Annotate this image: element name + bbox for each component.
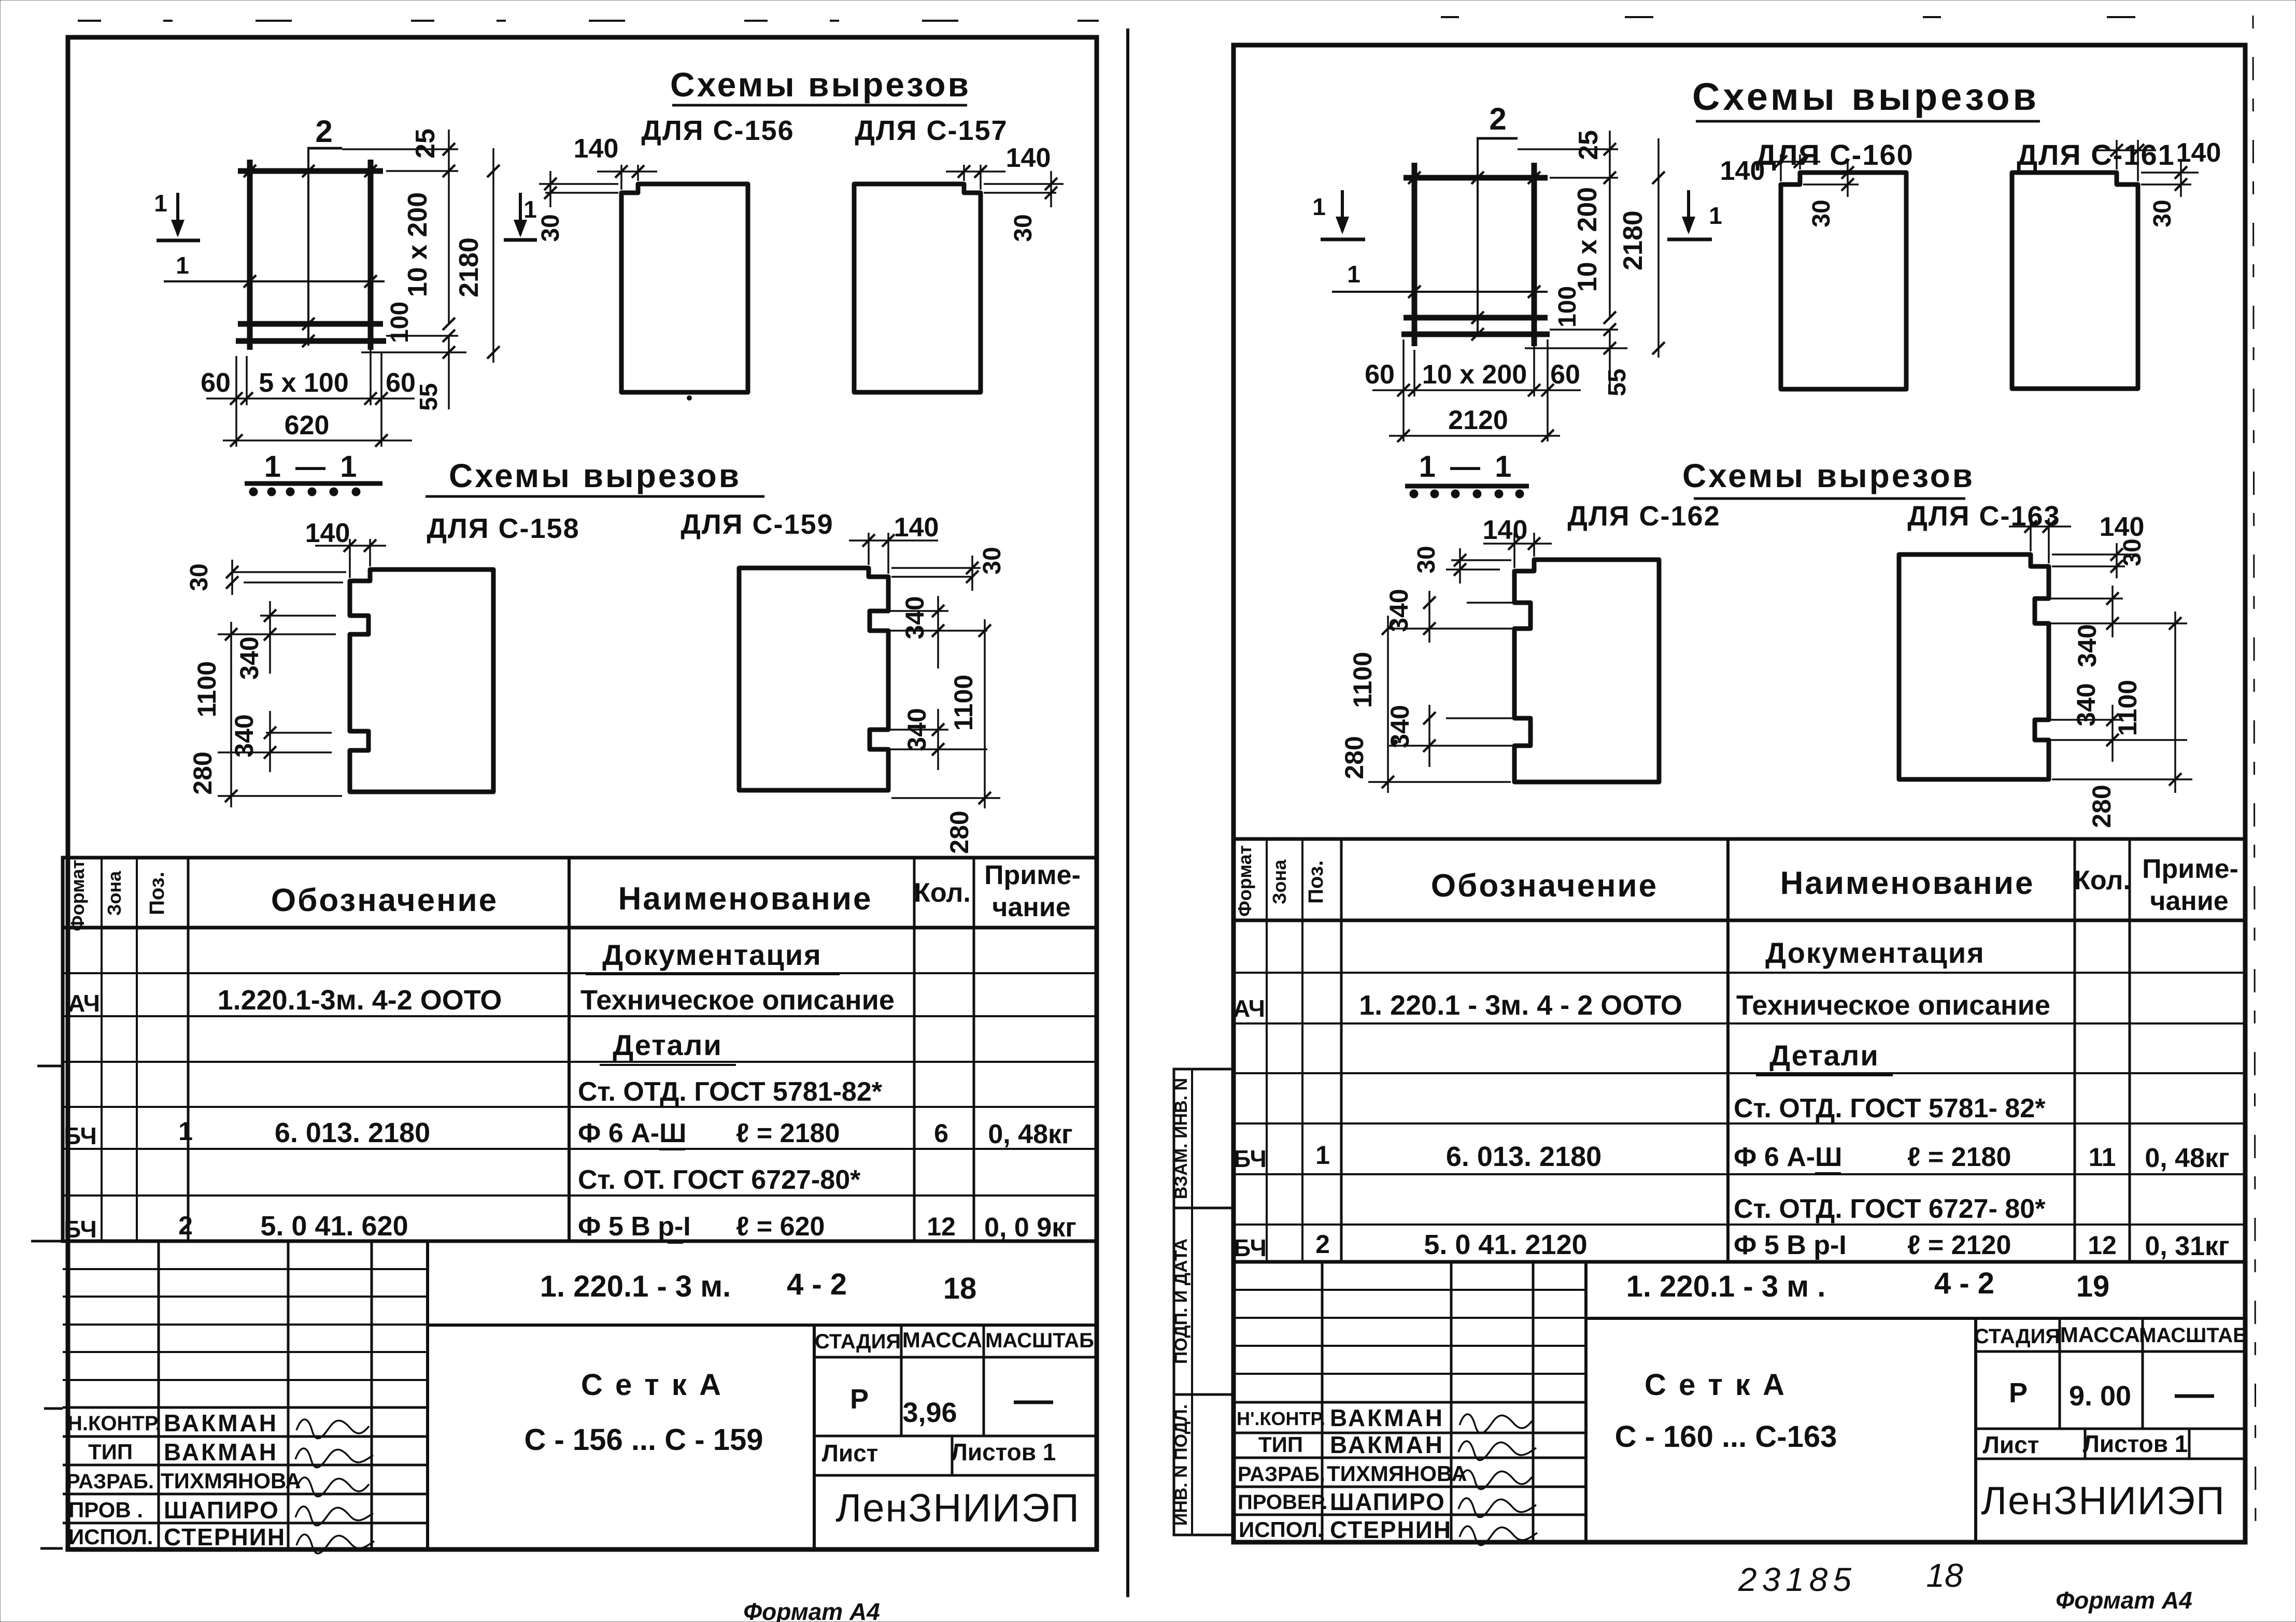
svg-text:ВАКМАН: ВАКМАН	[164, 1439, 278, 1466]
left title block thin row line	[63, 1379, 428, 1381]
left spec table header bottom line	[63, 926, 1097, 930]
C-159 dim 1100 line	[984, 619, 986, 808]
C-156 dim 30 tick line	[549, 171, 551, 207]
svg-text:ПРОВЕР.: ПРОВЕР.	[1238, 1491, 1327, 1514]
svg-text:340: 340	[235, 636, 264, 679]
mesh L bottom ext line c	[370, 350, 372, 405]
svg-text:ТИХМЯНОВА: ТИХМЯНОВА	[161, 1469, 301, 1493]
mesh R dim 2120 line	[1389, 435, 1560, 437]
svg-text:140: 140	[894, 513, 939, 543]
right title block signature 5	[1459, 1526, 1537, 1545]
mesh L tick top-mid	[302, 165, 315, 177]
mesh R section arrow right base	[1667, 238, 1712, 241]
svg-text:280: 280	[945, 810, 974, 853]
mesh R ticks top	[1408, 172, 1421, 184]
svg-text:ДЛЯ С-160: ДЛЯ С-160	[1755, 138, 1914, 171]
svg-text:2: 2	[315, 114, 332, 149]
svg-text:Техническое описание: Техническое описание	[1736, 990, 2050, 1021]
mesh R bottom ext lines	[1402, 339, 1405, 442]
C-159 dim 30 tick line	[971, 556, 973, 591]
C-158 dim 140 ext lines	[349, 539, 351, 578]
svg-text:0, 31кг: 0, 31кг	[2145, 1231, 2229, 1261]
left margin tick 3	[44, 1407, 63, 1410]
C-163 dim 140 ext lines	[2030, 518, 2032, 551]
right title block signature row line	[1234, 1486, 1586, 1488]
C-159 dim 140 ext lines	[868, 533, 870, 565]
mesh R dim ticks row1	[1397, 384, 1410, 396]
svg-text:ШАПИРО: ШАПИРО	[164, 1497, 279, 1524]
svg-text:БЧ: БЧ	[64, 1216, 97, 1243]
C-157 dim 140 line	[946, 170, 1005, 173]
svg-text:ДЛЯ С-157: ДЛЯ С-157	[855, 115, 1008, 146]
svg-text:С - 156 ... С - 159: С - 156 ... С - 159	[525, 1423, 763, 1457]
C-156 dim 140 ticks	[615, 165, 628, 178]
mesh L tick cut-left	[244, 275, 256, 288]
mesh L dim 100 ext	[386, 335, 458, 337]
C-159 dim 340 lower line	[937, 709, 939, 770]
right title block list divider	[2084, 1429, 2087, 1459]
C-157 dim 30 ext b	[984, 192, 1056, 194]
C-159 dim 340 lower ticks	[932, 723, 944, 736]
svg-text:55: 55	[1604, 368, 1631, 396]
C-158 cutout2 ext lines	[266, 732, 332, 734]
svg-text:30: 30	[1010, 214, 1037, 241]
mesh L middle wire 2	[307, 148, 309, 346]
svg-text:340: 340	[1385, 705, 1414, 748]
right title block title box right line	[1974, 1318, 1977, 1542]
svg-text:1. 220.1 - 3 м .: 1. 220.1 - 3 м .	[1626, 1270, 1826, 1303]
mesh R dim 10x200 tick	[1604, 311, 1616, 324]
svg-text:Ф 6 А-Ш: Ф 6 А-Ш	[1734, 1142, 1842, 1172]
left title block scale dash	[1014, 1401, 1053, 1404]
svg-text:БЧ: БЧ	[64, 1122, 97, 1149]
mesh R section arrow left	[1341, 190, 1344, 231]
svg-text:Зона: Зона	[1269, 859, 1290, 904]
cutout scheme C-158 outline	[350, 570, 493, 792]
left title block thin row line	[63, 1324, 428, 1326]
svg-text:БЧ: БЧ	[1234, 1145, 1267, 1172]
C-159 dim 340 upper ticks	[932, 605, 944, 617]
svg-text:60: 60	[386, 368, 416, 398]
C-158 dim 30 ticks	[226, 566, 238, 578]
C-159 bottom ext line	[891, 797, 1000, 799]
C-156 dim 30 ext b	[545, 192, 618, 194]
svg-text:МАСШТАБ: МАСШТАБ	[985, 1329, 1094, 1352]
mesh L tick bot1-mid	[302, 318, 315, 330]
C-162 dim 140 ticks	[1508, 537, 1521, 550]
scan artifact top edge dashes right	[1441, 16, 2234, 18]
C-162 dim 30 ext lines	[1451, 559, 1511, 561]
svg-text:140: 140	[574, 134, 619, 164]
C-158 dim 30 tick line	[231, 560, 233, 595]
C-162 dim 340 upper line	[1428, 591, 1430, 643]
mesh L dim 55 ext	[361, 351, 466, 353]
mesh L section arrow left base	[157, 239, 200, 243]
left spec table row line	[63, 1106, 1097, 1108]
svg-text:12: 12	[927, 1212, 956, 1241]
svg-text:340: 340	[900, 596, 929, 639]
left spec table column line	[187, 858, 190, 1241]
C-156 dim 140 ext b	[637, 165, 639, 181]
C-156 dim 30 ext a	[539, 183, 618, 185]
mesh R dim 25 ext lines	[1518, 148, 1618, 150]
mesh L dim 25 tick a	[443, 143, 455, 155]
mesh R transverse bar top	[1404, 175, 1548, 181]
svg-text:340: 340	[230, 714, 259, 757]
svg-text:ℓ = 2120: ℓ = 2120	[1907, 1230, 2011, 1260]
svg-text:Схемы вырезов: Схемы вырезов	[1682, 457, 1975, 494]
svg-text:1 — 1: 1 — 1	[1419, 450, 1515, 483]
svg-text:Ф 5 В р-I: Ф 5 В р-I	[1734, 1230, 1847, 1260]
left margin tick 2	[31, 1240, 63, 1243]
right title block massa col line	[2142, 1318, 2144, 1429]
C-158 dim 340 upper line	[269, 601, 271, 674]
svg-text:5 x 100: 5 x 100	[259, 368, 349, 398]
right title block signature 3	[1459, 1470, 1532, 1489]
svg-text:280: 280	[188, 751, 217, 794]
C-156 dim 140 ext a	[620, 165, 622, 190]
left title block signature 3	[296, 1477, 369, 1497]
right spec table row line	[1234, 1122, 2245, 1125]
svg-text:12: 12	[2088, 1231, 2117, 1260]
C-163 dim 340 upper ticks	[2106, 592, 2119, 605]
stamp box PODP I DATA	[1174, 1208, 1234, 1395]
C-159 dim 1100 ticks	[979, 624, 991, 637]
left spec table column line	[136, 858, 138, 1241]
svg-text:60: 60	[1365, 360, 1395, 390]
left title block signature row line	[63, 1406, 428, 1409]
svg-text:0, 48кг: 0, 48кг	[988, 1119, 1072, 1149]
left spec row pos2 name underline	[668, 1242, 683, 1244]
svg-text:Детали: Детали	[613, 1029, 722, 1061]
mesh L dim 2180 tick top	[487, 165, 500, 177]
svg-text:чание: чание	[2150, 886, 2228, 916]
svg-text:Схемы вырезов: Схемы вырезов	[670, 65, 971, 104]
svg-text:Обозначение: Обозначение	[1431, 868, 1658, 904]
left spec row documentation underline	[586, 973, 840, 975]
svg-text:РАЗРАБ.: РАЗРАБ.	[66, 1470, 154, 1493]
mesh R ticks cut	[1408, 286, 1421, 298]
stamp box VZAM divider	[1191, 1069, 1193, 1208]
svg-text:ℓ = 620: ℓ = 620	[736, 1212, 825, 1242]
svg-text:2: 2	[1315, 1230, 1330, 1259]
mesh L dim 10x200 tick	[443, 318, 455, 330]
svg-text:Наименование: Наименование	[618, 881, 873, 917]
svg-text:1100: 1100	[1348, 652, 1377, 708]
left spec table column line	[913, 858, 916, 1241]
svg-text:1: 1	[1347, 261, 1360, 288]
left spec table row line	[63, 1194, 1097, 1197]
right spec row pos1 name underline	[1815, 1172, 1841, 1174]
C-158 dim 1100 line	[230, 622, 232, 807]
cutout scheme C-157 outline	[854, 184, 981, 392]
C-158 dim 140 ticks	[344, 539, 356, 552]
svg-text:6. 013. 2180: 6. 013. 2180	[275, 1117, 430, 1148]
left title block thin row line	[63, 1268, 428, 1270]
mesh R dim 100 ext	[1550, 329, 1618, 331]
C-158 dim 30 ext lines	[233, 571, 346, 573]
svg-text:60: 60	[201, 368, 231, 398]
left title block values row line	[814, 1435, 1097, 1438]
mesh L dim 55 tick	[443, 346, 455, 359]
left title block signature 4	[295, 1506, 373, 1526]
svg-text:1100: 1100	[949, 675, 978, 731]
C-160 dim 140 line	[1758, 161, 1820, 163]
C-158 cutout1 ext lines	[260, 615, 336, 617]
svg-text:Р: Р	[2009, 1377, 2028, 1408]
right title block signature row line	[1234, 1514, 1586, 1516]
C-163 cutout2 ext lines	[2038, 719, 2123, 721]
right title block signature 4	[1458, 1498, 1536, 1517]
svg-text:100: 100	[386, 302, 414, 343]
mesh R section arrow left base	[1321, 238, 1365, 241]
C-158 dim 340 lower line	[269, 711, 271, 772]
mesh R middle wire 2	[1477, 138, 1479, 336]
svg-text:30: 30	[537, 214, 564, 241]
right title block values row line	[1976, 1428, 2245, 1430]
C-163 dim 30 ext lines	[2052, 553, 2135, 556]
title underline top right page	[1696, 120, 2040, 123]
right spec table column line	[1301, 839, 1303, 1262]
C-156 dim 30 ticks	[544, 178, 557, 190]
svg-text:4 - 2: 4 - 2	[787, 1268, 847, 1301]
C-163 dim 340 upper line	[2111, 586, 2114, 637]
svg-text:Детали: Детали	[1769, 1039, 1879, 1072]
C-159 cutout1 ext lines	[873, 610, 948, 612]
right title block list row line	[1976, 1458, 2245, 1460]
svg-text:Приме-: Приме-	[984, 860, 1081, 890]
svg-text:Поз.: Поз.	[146, 872, 168, 915]
mesh R dim 10x200 line	[1609, 187, 1611, 318]
C-157 dim 140 ext a	[963, 165, 965, 181]
svg-text:23185: 23185	[1738, 1561, 1856, 1598]
svg-text:Схемы вырезов: Схемы вырезов	[449, 457, 741, 494]
left title block signature 5	[296, 1534, 374, 1554]
svg-text:2: 2	[178, 1211, 193, 1240]
C-163 dim 340 lower ticks	[2106, 714, 2119, 726]
svg-text:ИСПОЛ.: ИСПОЛ.	[68, 1525, 153, 1549]
svg-text:1: 1	[1315, 1141, 1330, 1170]
mesh L dim 620 line	[223, 439, 412, 442]
mesh R longitudinal bar left	[1412, 163, 1418, 346]
right title block signature 1	[1459, 1414, 1532, 1433]
mesh L section arrow left	[176, 193, 179, 234]
svg-text:10 x 200: 10 x 200	[403, 192, 433, 297]
cutout scheme C-156 outline	[621, 184, 748, 392]
svg-text:ДЛЯ С-162: ДЛЯ С-162	[1567, 501, 1720, 532]
C-163 dim 30 ticks	[2110, 548, 2123, 561]
svg-text:ДЛЯ С-161: ДЛЯ С-161	[2017, 138, 2175, 171]
svg-text:0, 48кг: 0, 48кг	[2145, 1143, 2229, 1173]
left title block list divider	[951, 1436, 954, 1475]
mesh L dim 100 ticks	[443, 330, 455, 342]
svg-text:ЛенЗНИИЭП: ЛенЗНИИЭП	[1981, 1479, 2225, 1523]
right title block signature grid verticals	[1321, 1262, 1324, 1542]
svg-text:280: 280	[1340, 736, 1369, 779]
svg-text:Документация: Документация	[602, 938, 822, 971]
right spec table column line	[1266, 839, 1268, 1262]
C-160 dim 140 ticks	[1775, 155, 1787, 168]
title underline middle right page	[1694, 497, 1965, 500]
svg-text:Ф 5 В р-I: Ф 5 В р-I	[578, 1212, 691, 1242]
svg-text:620: 620	[285, 410, 330, 440]
C-160 dim 30 ext lines	[1803, 172, 1866, 174]
right title block stadia header line	[1976, 1350, 2245, 1353]
mesh L bottom ext line d	[380, 352, 382, 447]
C-162 cutout1 ext lines	[1467, 602, 1528, 604]
mesh L wire-2 callout flag	[307, 147, 342, 150]
svg-text:ИСПОЛ.: ИСПОЛ.	[1239, 1517, 1323, 1542]
left title block signature row line	[63, 1493, 428, 1496]
svg-text:СТЕРНИН: СТЕРНИН	[1330, 1516, 1452, 1543]
svg-text:1. 220.1 - 3м. 4 - 2 ООТО: 1. 220.1 - 3м. 4 - 2 ООТО	[1359, 990, 1682, 1021]
left margin tick 4	[40, 1547, 63, 1550]
C-162 bottom ext line	[1368, 781, 1511, 783]
svg-text:ТИП: ТИП	[1258, 1432, 1303, 1457]
mesh L section arrow right base	[504, 238, 537, 242]
C-156 dim 140 line	[597, 170, 657, 173]
mesh L dim 2180 line	[492, 148, 494, 363]
cutout scheme C-159 outline	[739, 568, 888, 790]
left margin tick 1	[37, 1065, 63, 1068]
mesh L section arrow right	[519, 193, 522, 234]
right title block list divider 2	[2188, 1429, 2191, 1459]
svg-text:МАССА: МАССА	[2060, 1322, 2140, 1347]
C-162 dim 1100 line	[1387, 616, 1389, 793]
right spec row documentation underline	[1747, 972, 2004, 974]
title underline middle left page	[426, 495, 764, 498]
svg-text:140: 140	[2100, 512, 2145, 542]
svg-text:5. 0 41. 2120: 5. 0 41. 2120	[1424, 1229, 1587, 1260]
svg-text:Ст. ОТД. ГОСТ 6727- 80*: Ст. ОТД. ГОСТ 6727- 80*	[1734, 1194, 2046, 1224]
cutout scheme C-162 outline	[1514, 560, 1659, 782]
svg-text:ДЛЯ С-158: ДЛЯ С-158	[427, 513, 579, 544]
left title block stadia header line	[814, 1356, 1097, 1359]
svg-text:30: 30	[2149, 200, 2176, 227]
left spec row pos1 name underline	[659, 1148, 685, 1150]
svg-text:9. 00: 9. 00	[2069, 1381, 2131, 1412]
C-160 dim 140 ext lines	[1780, 154, 1782, 181]
svg-text:Кол.: Кол.	[2074, 865, 2131, 895]
mesh R dim 100 tick	[1604, 323, 1616, 336]
svg-text:1 — 1: 1 — 1	[264, 450, 360, 483]
svg-text:Листов 1: Листов 1	[2083, 1430, 2188, 1457]
svg-text:6. 013. 2180: 6. 013. 2180	[1446, 1141, 1601, 1172]
C-158 dim 340 lower ticks	[264, 727, 276, 739]
mesh L bottom ext line a	[235, 356, 237, 447]
left title block thin row line	[63, 1351, 428, 1353]
right spec table column line	[2129, 839, 2131, 1262]
C-159 dim 30 ticks	[966, 562, 979, 574]
svg-text:Формат А4: Формат А4	[743, 1598, 880, 1622]
right spec table column line	[2074, 839, 2076, 1262]
svg-text:Ст. ОТД. ГОСТ 5781-82*: Ст. ОТД. ГОСТ 5781-82*	[578, 1077, 883, 1107]
C-160 dim 30 tick line	[1847, 161, 1849, 197]
svg-text:1: 1	[154, 190, 167, 217]
right title block scale dash	[2175, 1395, 2214, 1398]
mesh R dim 55 ext	[1525, 347, 1627, 349]
right spec table row line	[1234, 972, 2245, 974]
svg-text:ТИП: ТИП	[88, 1440, 133, 1464]
scan streak right edge	[2253, 16, 2256, 1544]
svg-text:25: 25	[410, 129, 441, 159]
mesh L dim 25 tick b	[443, 165, 455, 177]
section 1-1 dots left page	[249, 488, 258, 496]
C-163 dim 140 line	[2009, 525, 2071, 528]
svg-text:340: 340	[2072, 683, 2101, 726]
svg-text:30: 30	[2119, 538, 2146, 566]
svg-text:С е т к А: С е т к А	[581, 1368, 723, 1402]
right spec row pos2 name underline	[1823, 1260, 1839, 1262]
right spec table row line	[1234, 1072, 2245, 1074]
left spec table column line	[568, 858, 571, 1241]
svg-text:1100: 1100	[2113, 680, 2142, 736]
left spec table row line	[63, 1015, 1097, 1017]
mesh R wire-2 callout flag	[1477, 137, 1518, 140]
mesh R dim 25 ticks	[1604, 143, 1616, 155]
svg-text:АЧ: АЧ	[1233, 995, 1265, 1022]
mesh L dim ticks row1	[230, 392, 243, 405]
svg-text:140: 140	[1720, 156, 1765, 186]
svg-text:ПРОВ .: ПРОВ .	[68, 1498, 143, 1522]
mesh L dim 25 extension line 2	[386, 170, 458, 172]
C-159 dim 140 line	[849, 539, 938, 542]
svg-text:ДЛЯ С-159: ДЛЯ С-159	[681, 509, 833, 540]
mesh L dim 25 extension line	[342, 148, 458, 150]
C-163 dim 30 tick line	[2116, 543, 2118, 578]
svg-text:18: 18	[1926, 1557, 1963, 1594]
right title block top line	[1234, 1260, 2245, 1264]
mesh R longitudinal bar right	[1532, 163, 1537, 346]
svg-text:2180: 2180	[454, 237, 484, 297]
C-163 dim 1100 ticks	[2169, 617, 2181, 630]
svg-text:140: 140	[1006, 143, 1051, 173]
C-162 dim 30 ticks	[1454, 554, 1466, 566]
svg-text:1100: 1100	[192, 661, 221, 717]
mesh L dim 25 line	[448, 130, 450, 182]
C-162 dim 140 ext lines	[1513, 533, 1515, 568]
svg-text:1: 1	[523, 196, 537, 223]
stamp box PODP divider	[1191, 1208, 1193, 1395]
C-157 dim 140 ticks	[958, 165, 970, 178]
right title block signature row line	[1234, 1457, 1586, 1459]
mesh R dim 25 line	[1609, 131, 1611, 187]
left spec table column line	[101, 858, 103, 1241]
C-162 dim 340 lower ticks	[1423, 712, 1436, 724]
svg-text:2180: 2180	[1618, 210, 1648, 271]
svg-text:ЛенЗНИИЭП: ЛенЗНИИЭП	[835, 1486, 1080, 1530]
svg-text:60: 60	[1550, 360, 1580, 390]
svg-text:ПОДП. И ДАТА: ПОДП. И ДАТА	[1171, 1239, 1191, 1364]
svg-text:140: 140	[305, 518, 350, 548]
C-161 dim 140 line	[2094, 149, 2156, 151]
mesh L transverse bar top	[238, 168, 383, 174]
C-163 dim 140 ticks	[2024, 520, 2037, 533]
mesh R dim 55 tick	[1604, 342, 1616, 354]
svg-text:РАЗРАБ.: РАЗРАБ.	[1238, 1463, 1325, 1486]
right spec table outer box	[1234, 839, 2245, 1262]
svg-text:МАССА: МАССА	[902, 1328, 982, 1352]
svg-text:340: 340	[2073, 624, 2102, 667]
svg-text:25: 25	[1574, 130, 1604, 160]
svg-text:30: 30	[186, 563, 213, 591]
C-161 dim 140 ext lines	[2116, 140, 2118, 169]
C-158 bottom ext line	[218, 795, 342, 797]
svg-text:280: 280	[2087, 785, 2116, 828]
svg-text:Формат А4: Формат А4	[2056, 1587, 2192, 1614]
svg-text:1: 1	[176, 252, 189, 279]
right title block signature row line	[1234, 1401, 1586, 1404]
